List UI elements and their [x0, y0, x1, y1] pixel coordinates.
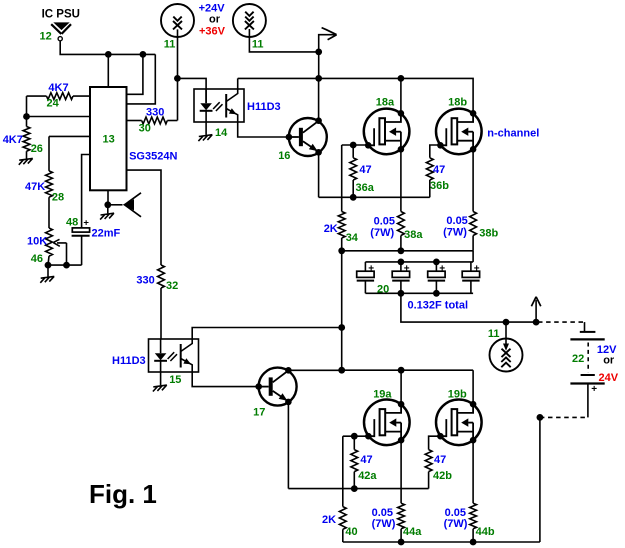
wire rail to 18a: [319, 77, 401, 79]
optocoupler U15 H11D3: [149, 339, 199, 372]
svg-text:26: 26: [31, 143, 43, 155]
svg-text:38a: 38a: [404, 229, 423, 241]
wire to lamp3: [505, 322, 507, 348]
svg-text:22: 22: [572, 353, 584, 365]
junction opto15 collector: [338, 324, 345, 331]
junction R38a/mid rail: [398, 247, 405, 254]
capacitor cell C20 at x=436.4: [435, 262, 437, 271]
capacitor cell C20 at x=365.4: [364, 262, 366, 271]
lamp LP11b: [233, 4, 266, 37]
wire mid rail down: [341, 251, 343, 370]
resistor R26 4K7: [23, 127, 30, 152]
wire gate line to R34: [341, 145, 343, 212]
svg-text:0.05: 0.05: [374, 216, 395, 228]
wire lower drain rail: [342, 369, 473, 371]
junction rail/IC: [105, 51, 112, 58]
wire LED15 cathode to ground: [160, 372, 162, 385]
wire to ground: [47, 265, 49, 277]
junction pot bottom: [45, 262, 52, 269]
wire emitter rail: [319, 196, 430, 198]
resistor R34 2K: [338, 212, 345, 239]
junction node left: [23, 113, 30, 120]
wire IC to C48: [82, 155, 90, 228]
wire down to R28: [48, 136, 50, 171]
svg-text:or: or: [209, 14, 221, 26]
wire R28 to pot: [48, 197, 50, 228]
wire to R24 left: [27, 95, 47, 97]
wire R42a to emitter rail: [353, 472, 355, 489]
resistor R38a 0.05: [398, 212, 405, 236]
svg-text:24: 24: [47, 97, 60, 109]
svg-text:38b: 38b: [479, 228, 498, 240]
svg-text:47: 47: [359, 164, 371, 176]
wire 18b source down: [472, 149, 474, 211]
svg-text:34: 34: [346, 232, 359, 244]
transistor Q16 (NPN): [286, 117, 327, 156]
wire T17 collector to rail: [288, 369, 341, 371]
junction wiper bottom: [63, 262, 70, 269]
wire R40 to bottom rail: [342, 529, 344, 542]
svg-text:13: 13: [103, 134, 115, 146]
junction lower drain rail: [338, 367, 345, 374]
svg-text:(7W): (7W): [443, 226, 467, 238]
wire bottom rail: [343, 541, 540, 543]
resistor R32 330: [158, 265, 165, 288]
potentiometer R46 10K: [46, 228, 53, 256]
wire opto14 collector up: [237, 78, 239, 89]
resistor R36b 47: [426, 158, 433, 180]
wire IC bottom pin: [107, 190, 109, 205]
junction battery return: [537, 414, 544, 421]
wire drain rail segment: [238, 77, 319, 79]
resistor R30 330: [142, 117, 168, 124]
svg-text:0.05: 0.05: [372, 507, 393, 519]
junction lamp1/opto/R30: [174, 75, 181, 82]
junction rail/pin1: [140, 51, 147, 58]
pot wiper arrow: [57, 243, 67, 265]
IC U13 SG3524N: [90, 87, 127, 190]
svg-text:17: 17: [253, 406, 265, 418]
resistor R28 47K: [46, 171, 53, 197]
svg-text:36b: 36b: [430, 180, 449, 192]
ground under opto14: [198, 135, 212, 141]
svg-text:330: 330: [136, 274, 154, 286]
junction IC bottom: [104, 201, 111, 208]
resistor R24 4K7: [47, 93, 74, 100]
arrow up at battery: [535, 300, 537, 322]
svg-text:SG3524N: SG3524N: [129, 151, 177, 163]
wire gate line 18a: [342, 144, 369, 146]
wire R34 to mid rail: [341, 238, 343, 251]
junction R34/mid rail: [338, 247, 345, 254]
junction R44b bottom: [470, 539, 477, 546]
capacitor cell C20 at x=470.9: [470, 262, 472, 271]
svg-text:4K7: 4K7: [3, 134, 23, 146]
junction R42a bottom: [351, 485, 358, 492]
svg-text:+: +: [474, 264, 480, 275]
svg-text:330: 330: [146, 107, 164, 119]
svg-text:28: 28: [52, 192, 64, 204]
wire R42b to 19b gate: [429, 436, 441, 449]
svg-text:0.05: 0.05: [445, 507, 466, 519]
wire R28 chain to IC pin: [49, 135, 90, 137]
svg-text:48: 48: [66, 216, 78, 228]
svg-text:47K: 47K: [25, 181, 45, 193]
svg-text:47: 47: [360, 454, 372, 466]
resistor R44a 0.05: [398, 503, 405, 529]
wire gate line 19a: [343, 435, 369, 437]
svg-text:19a: 19a: [373, 388, 392, 400]
capacitor cell C20 at x=400.9: [400, 262, 402, 271]
wire IC to R32: [127, 170, 162, 265]
svg-text:+: +: [83, 218, 89, 229]
svg-text:11: 11: [164, 39, 176, 51]
junction R36a top: [350, 142, 357, 149]
svg-text:12: 12: [40, 30, 52, 42]
svg-text:Fig. 1: Fig. 1: [89, 479, 157, 509]
arrow connector at IC: [123, 193, 141, 217]
wire R24 to IC: [73, 95, 90, 97]
ground under R26: [19, 158, 33, 164]
optocoupler U14 H11D3: [194, 89, 244, 122]
dashed battery + return: [540, 416, 588, 418]
ground under pot: [40, 276, 54, 282]
wire 18a drain drop: [400, 78, 402, 113]
wire R30 to lamp column: [167, 120, 177, 122]
svg-text:IC PSU: IC PSU: [42, 9, 80, 21]
svg-text:(7W): (7W): [370, 227, 394, 239]
svg-text:47: 47: [433, 164, 445, 176]
battery bottom stub: [587, 384, 589, 418]
wire 19a source down: [400, 440, 402, 503]
junction 19a drain: [398, 367, 405, 374]
junction R36a bottom: [350, 194, 357, 201]
wire R26 to ground: [26, 151, 28, 158]
svg-text:14: 14: [215, 127, 228, 139]
svg-text:0.132F total: 0.132F total: [408, 300, 469, 312]
junction cap bus: [398, 259, 405, 266]
wire to R26: [26, 117, 28, 127]
wire 19a drain drop: [400, 370, 402, 404]
wire 19b source down: [472, 440, 474, 503]
wire bottom node: [48, 264, 82, 266]
svg-text:+: +: [439, 264, 445, 275]
svg-text:+24V: +24V: [199, 2, 226, 14]
wire left column: [26, 96, 28, 116]
resistor R42a 47: [351, 450, 358, 472]
svg-text:24V: 24V: [599, 372, 619, 384]
ground under opto15: [153, 385, 167, 391]
battery top stub: [584, 322, 586, 332]
wire LED14 cathode to ground: [205, 122, 207, 135]
svg-text:36a: 36a: [356, 182, 375, 194]
junction cap bus bottom: [398, 290, 405, 297]
wire lamp2 to bus: [249, 29, 318, 52]
svg-text:20: 20: [377, 283, 389, 295]
wire to ground: [107, 205, 109, 214]
wire to opto14 LED anode: [177, 78, 206, 103]
svg-text:22mF: 22mF: [92, 227, 121, 239]
lamp LP11a: [161, 4, 194, 37]
wire opto14 emitter to T16 base: [238, 122, 289, 137]
svg-text:15: 15: [169, 374, 181, 386]
output arrow right: [319, 35, 336, 52]
wire rail to IC right pin 1: [127, 54, 143, 94]
wire 19b drain drop: [472, 370, 474, 404]
wire 18a source down: [400, 149, 402, 211]
wire IC to R30: [127, 120, 142, 122]
svg-text:18b: 18b: [448, 97, 467, 109]
ground under IC: [100, 213, 114, 219]
wire junction to IC pin: [27, 116, 91, 118]
wire gate line to R40: [342, 436, 344, 506]
svg-text:46: 46: [31, 253, 43, 265]
svg-text:18a: 18a: [376, 97, 395, 109]
lamp LP11c: [490, 339, 523, 372]
wire rail to IC top pin: [107, 54, 109, 87]
wire R38b to mid rail: [472, 236, 474, 251]
junction cap bus: [433, 259, 440, 266]
wire T17 emitter down: [287, 402, 289, 489]
wire to R36b: [429, 180, 431, 197]
wire to opto15 collector: [192, 328, 342, 340]
svg-text:30: 30: [139, 123, 151, 135]
wire rail to IC right pin 2: [127, 54, 156, 104]
svg-text:+: +: [404, 264, 410, 275]
wire T16 emitter down: [318, 152, 320, 197]
svg-text:11: 11: [252, 39, 264, 51]
svg-text:42b: 42b: [433, 470, 452, 482]
svg-text:16: 16: [278, 150, 290, 162]
junction R44a bottom: [398, 539, 405, 546]
MOSFET 19b (n-channel): [436, 400, 482, 446]
wire R36a to emitter rail: [352, 180, 354, 197]
resistor R44b 0.05: [470, 503, 477, 529]
svg-text:32: 32: [166, 280, 178, 292]
svg-text:H11D3: H11D3: [112, 355, 146, 367]
wire T16 collector up: [318, 78, 320, 120]
wire cap top bus: [365, 261, 473, 263]
wire R38a to mid rail: [400, 236, 402, 251]
wire pot to bottom node: [48, 256, 49, 265]
wire R44b to bottom rail: [472, 529, 474, 542]
svg-text:+: +: [591, 384, 597, 395]
svg-text:4K7: 4K7: [48, 82, 68, 94]
wire R44a to bottom rail: [400, 529, 402, 542]
junction T16 collector rail: [315, 75, 322, 82]
wire down to drain rail: [318, 52, 320, 79]
svg-text:42a: 42a: [358, 470, 377, 482]
wire rail to cap bus: [472, 251, 474, 262]
dashed wire to battery -: [538, 321, 585, 323]
wire battery return down: [539, 417, 541, 542]
dashed battery cells: [587, 343, 589, 373]
transistor Q17 (NPN): [255, 367, 296, 406]
wire top supply rail: [60, 41, 155, 55]
junction cap bus bottom: [433, 290, 440, 297]
svg-text:or: or: [603, 355, 615, 367]
MOSFET 18b (n-channel): [436, 109, 482, 155]
wire to R42a: [353, 436, 355, 449]
resistor R36a 47: [350, 158, 357, 180]
wire lower emitter rail: [288, 488, 428, 490]
wire lamp1 down through junction: [177, 29, 179, 120]
svg-text:10K: 10K: [27, 235, 47, 247]
svg-text:+: +: [368, 264, 374, 275]
power symbol 12 (IC PSU feed): [51, 22, 71, 40]
junction lamp2/arrow: [315, 49, 322, 56]
wire caps to battery node: [401, 293, 536, 322]
wire rail to 18b drain: [401, 78, 473, 113]
junction lamp3: [503, 319, 510, 326]
junction 18a drain rail: [398, 75, 405, 82]
svg-text:(7W): (7W): [444, 518, 468, 530]
wire to R42b: [428, 472, 430, 489]
junction battery/arrow: [533, 319, 540, 326]
svg-text:40: 40: [345, 526, 357, 538]
svg-text:47: 47: [434, 454, 446, 466]
junction R42a top: [351, 433, 358, 440]
capacitor C48 22mF: [72, 228, 89, 232]
wire opto15 emitter to T17 base: [192, 372, 259, 387]
MOSFET 19a (n-channel): [364, 400, 410, 446]
resistor R40 2K: [339, 507, 346, 530]
svg-text:2K: 2K: [322, 514, 336, 526]
wire R36b to 18b gate: [430, 145, 441, 158]
wire to R36a: [352, 145, 354, 158]
svg-text:11: 11: [488, 328, 500, 340]
svg-text:+36V: +36V: [199, 25, 226, 37]
wire C48 to node: [81, 236, 83, 265]
svg-text:19b: 19b: [448, 388, 467, 400]
resistor R42b 47: [425, 450, 432, 472]
svg-text:44a: 44a: [403, 526, 422, 538]
wire cap bottom bus: [365, 292, 473, 294]
svg-text:n-channel: n-channel: [487, 127, 539, 139]
wire mid rail: [342, 250, 473, 252]
wire R32 to opto 15: [160, 288, 162, 339]
svg-text:(7W): (7W): [372, 518, 396, 530]
svg-text:44b: 44b: [476, 526, 495, 538]
svg-text:2K: 2K: [324, 223, 338, 235]
resistor R38b 0.05: [470, 212, 477, 236]
svg-text:H11D3: H11D3: [247, 101, 281, 113]
wire to arrow symbol: [108, 204, 123, 206]
MOSFET 18a (n-channel): [364, 109, 410, 155]
